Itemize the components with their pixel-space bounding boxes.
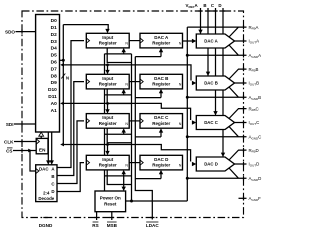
- pin label AGNDC: [249, 135, 262, 141]
- node bus tap junction: [62, 59, 65, 62]
- svg-text:Register: Register: [152, 82, 170, 87]
- wire RFBD output: [229, 150, 247, 160]
- svg-text:D5: D5: [51, 53, 57, 59]
- DAC A converter: [196, 34, 234, 48]
- pin label AGNDD: [249, 176, 262, 182]
- wire CS to EN and 2:4 decode: [13, 151, 36, 172]
- DAC register A: [140, 33, 183, 48]
- svg-text:CLK: CLK: [4, 140, 14, 145]
- svg-text:Register: Register: [99, 163, 117, 168]
- wire DAC register A to DAC A: [183, 40, 194, 42]
- serial input register block: [36, 15, 60, 133]
- wire power-on-reset to DAC registers: [135, 50, 161, 179]
- input register B reset arrow: [122, 89, 126, 93]
- svg-text:N: N: [125, 42, 128, 46]
- svg-text:SDO: SDO: [5, 30, 15, 35]
- pin label MSB: [107, 222, 118, 228]
- svg-text:Register: Register: [99, 41, 117, 46]
- wire AGNDD output: [187, 168, 246, 178]
- svg-text:RS: RS: [92, 223, 98, 228]
- pin label AGNDB: [249, 95, 262, 101]
- wire VREFA line: [200, 8, 202, 32]
- pin label AGNDA: [249, 53, 262, 59]
- svg-text:Input: Input: [102, 76, 113, 81]
- svg-text:Input: Input: [102, 115, 113, 120]
- svg-text:DAC B: DAC B: [204, 81, 218, 86]
- svg-text:DGND: DGND: [39, 223, 53, 228]
- svg-text:B: B: [51, 174, 54, 179]
- svg-text:Input: Input: [102, 35, 113, 40]
- svg-text:D2: D2: [51, 32, 57, 38]
- svg-text:Register: Register: [99, 121, 117, 126]
- svg-text:2:4: 2:4: [43, 191, 50, 196]
- chip boundary dash-dot border: [22, 11, 244, 218]
- svg-text:N: N: [125, 164, 128, 168]
- svg-text:DAC: DAC: [39, 167, 49, 172]
- svg-text:A1: A1: [51, 108, 57, 114]
- svg-text:Reset: Reset: [104, 202, 117, 207]
- svg-text:D9: D9: [51, 80, 57, 86]
- decode A0 A1 input arrows: [46, 160, 54, 164]
- svg-text:DAC C: DAC C: [154, 115, 169, 120]
- wire RFBC output: [229, 109, 247, 119]
- svg-text:A0: A0: [51, 101, 57, 107]
- pin label RS: [92, 222, 98, 228]
- svg-text:DAC D: DAC D: [154, 157, 169, 162]
- bus width marker N: [61, 74, 69, 81]
- svg-text:N: N: [179, 83, 182, 87]
- wire input reg D to DAC reg D: [129, 162, 140, 164]
- svg-text:D6: D6: [51, 60, 57, 66]
- wire VREFD line: [222, 8, 224, 155]
- svg-text:Input: Input: [102, 157, 113, 162]
- DAC D data input arrow: [192, 162, 196, 166]
- input register C load arrow: [105, 109, 109, 113]
- wire A0 A1 to decode: [48, 132, 51, 164]
- DAC register B: [140, 74, 183, 89]
- svg-text:DAC C: DAC C: [204, 120, 218, 125]
- DAC C VREF arrow: [213, 111, 217, 115]
- wire VREFC line: [215, 8, 217, 113]
- svg-text:Power On: Power On: [100, 195, 121, 200]
- DAC A data input arrow: [192, 39, 196, 43]
- pin label CS: [6, 148, 12, 154]
- pin label SDO: [5, 30, 15, 35]
- svg-text:Decode: Decode: [38, 196, 54, 201]
- wire decode select B riser: [57, 82, 84, 176]
- input register D reset arrow: [122, 170, 126, 174]
- pin label IOUTB: [249, 81, 260, 87]
- wire AGNDB output: [187, 87, 246, 97]
- DAC register C LDAC arrow: [159, 128, 163, 132]
- DAC D VREF arrow: [221, 153, 225, 157]
- pin label SDI: [6, 122, 14, 127]
- wire IOUTA output: [235, 40, 247, 42]
- svg-text:Register: Register: [99, 82, 117, 87]
- DAC B VREF arrow: [206, 72, 210, 76]
- node AGNDC rail junction: [186, 135, 189, 138]
- svg-text:D8: D8: [51, 73, 57, 79]
- wire power-on-reset output: [126, 200, 188, 202]
- svg-text:N: N: [179, 164, 182, 168]
- svg-text:D: D: [218, 3, 221, 8]
- input register A load arrow: [105, 29, 109, 33]
- DAC register B LDAC arrow: [159, 89, 163, 93]
- input register D load arrow: [105, 151, 109, 155]
- wire data branch row A: [63, 25, 108, 31]
- readback arrows into serial register: [60, 63, 64, 146]
- node branch B junction: [106, 64, 109, 67]
- node AGNDD rail junction: [186, 177, 189, 180]
- pin label RFBA: [249, 25, 259, 31]
- svg-text:DAC A: DAC A: [154, 35, 169, 40]
- svg-text:D: D: [51, 189, 54, 194]
- svg-text:Register: Register: [152, 121, 170, 126]
- svg-text:D1: D1: [51, 25, 57, 31]
- wire data bus vertical: [62, 25, 64, 145]
- pin tick marks: [22, 11, 244, 218]
- wire decode select A riser: [57, 41, 84, 168]
- svg-text:LDAC: LDAC: [146, 223, 159, 228]
- svg-text:Register: Register: [152, 163, 170, 168]
- wire AGNDF pin: [239, 197, 247, 199]
- wire AGNDC output: [187, 127, 246, 137]
- pin label DGND: [39, 223, 53, 228]
- svg-text:N: N: [125, 122, 128, 126]
- input register C: [86, 114, 129, 129]
- DAC A VREF arrow: [198, 30, 202, 34]
- DAC B data input arrow: [192, 81, 196, 85]
- node POR output junction: [130, 200, 133, 203]
- DAC register C: [140, 114, 183, 129]
- input register C reset arrow: [122, 128, 126, 132]
- svg-text:D10: D10: [48, 87, 57, 93]
- input register A: [86, 33, 129, 48]
- pin label VREFB: [203, 3, 206, 8]
- pin label IOUTD: [249, 162, 260, 168]
- wire serial register data tap to bus: [60, 59, 64, 61]
- pin label AGNDF: [249, 196, 262, 202]
- power-on reset block: [95, 191, 126, 212]
- wire SDI: [14, 123, 36, 125]
- wire AGNDA output: [187, 45, 246, 55]
- pin label VREFD: [218, 3, 221, 8]
- svg-text:N: N: [179, 122, 182, 126]
- svg-text:N: N: [125, 83, 128, 87]
- DAC register D: [140, 155, 183, 170]
- svg-text:N: N: [179, 42, 182, 46]
- svg-text:CS: CS: [6, 149, 12, 154]
- svg-text:D0: D0: [51, 18, 57, 24]
- wire input reg C to DAC reg C: [129, 120, 140, 122]
- wire RFBB output: [229, 69, 247, 79]
- DAC B converter: [196, 76, 234, 90]
- wire IOUTD output: [235, 163, 247, 165]
- node branch C junction: [106, 102, 109, 105]
- svg-text:SDI: SDI: [6, 122, 14, 127]
- wire power-on-reset to input registers: [105, 50, 132, 201]
- DAC register A LDAC arrow: [159, 48, 163, 52]
- node AGNDA rail junction: [186, 54, 189, 57]
- svg-text:B: B: [203, 3, 206, 8]
- 2:4 decode block: [36, 165, 57, 202]
- wire decode select D riser: [57, 163, 84, 192]
- svg-text:EN: EN: [39, 147, 46, 152]
- input register A reset arrow: [122, 48, 126, 52]
- wire EN clock to serial register: [40, 134, 42, 139]
- input register B load arrow: [105, 70, 109, 74]
- wire IOUTB output: [235, 82, 247, 84]
- DAC C converter: [196, 116, 234, 130]
- pin label VREFA: [186, 3, 199, 9]
- wire input reg B to DAC reg B: [129, 81, 140, 83]
- node branch D junction: [106, 143, 109, 146]
- pin label VREFC: [211, 3, 215, 8]
- wire RS pin: [96, 212, 98, 220]
- wire IOUTC output: [235, 122, 247, 124]
- svg-text:DAC B: DAC B: [154, 76, 169, 81]
- wire SDO: [16, 31, 36, 33]
- pin label RFBD: [249, 148, 259, 154]
- CS line arrow: [28, 149, 32, 153]
- wire RFBA output: [187, 27, 246, 37]
- wire data branch row C to input register C and DAC C: [63, 103, 190, 120]
- svg-text:D7: D7: [51, 66, 57, 72]
- node AGNDB rail junction: [186, 96, 189, 99]
- serial register clock triangle: [39, 132, 44, 136]
- EN gate block: [36, 138, 48, 153]
- svg-text:N: N: [66, 76, 69, 81]
- input register D: [86, 155, 129, 170]
- wire data branch row B to input register B and DAC B: [63, 65, 191, 81]
- svg-text:DAC D: DAC D: [204, 162, 218, 167]
- svg-text:Register: Register: [152, 41, 170, 46]
- pin label RFBC: [249, 106, 259, 112]
- wire MSB pin: [111, 212, 113, 220]
- svg-text:MSB: MSB: [107, 223, 118, 228]
- svg-text:D3: D3: [51, 39, 57, 45]
- pin label RFBB: [249, 67, 259, 73]
- svg-text:D11: D11: [48, 94, 57, 100]
- svg-text:D4: D4: [51, 46, 57, 52]
- svg-text:DAC A: DAC A: [204, 39, 217, 44]
- pin label IOUTC: [249, 120, 260, 126]
- pin label LDAC: [146, 222, 159, 228]
- serial register bit labels D0-D11 A0 A1: [48, 18, 57, 114]
- wire LDAC trunk: [135, 57, 152, 220]
- wire data branch row D to input register D and DAC D: [63, 145, 190, 162]
- wire input reg A to DAC reg A: [129, 40, 140, 42]
- pin label CLK: [4, 140, 14, 145]
- DAC D converter: [196, 157, 234, 171]
- wire decode select C riser: [57, 121, 84, 184]
- input register B: [86, 74, 129, 89]
- DAC C data input arrow: [192, 120, 196, 124]
- wire VREFB line: [207, 8, 209, 74]
- wire AGND rail: [186, 27, 188, 201]
- wire CLK: [14, 141, 36, 143]
- POR top arrow: [122, 187, 126, 191]
- DAC register D LDAC arrow: [159, 170, 163, 174]
- pin label IOUTA: [249, 39, 260, 45]
- wire input register bottom lines: [107, 48, 131, 185]
